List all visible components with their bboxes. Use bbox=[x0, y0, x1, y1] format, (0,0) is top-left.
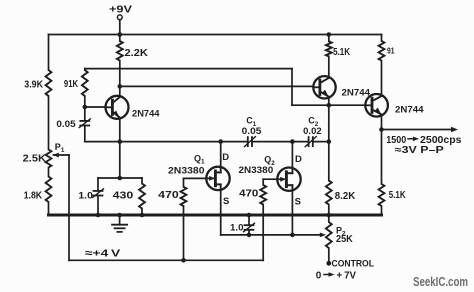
wire 430 upper bbox=[141, 178, 143, 184]
wire 91 to T3 collector bbox=[381, 61, 383, 96]
wire T1 emitter bbox=[119, 118, 121, 142]
label 2.2K bbox=[125, 48, 149, 59]
resistor 5.1K top bbox=[326, 41, 332, 56]
svg-text:0.05: 0.05 bbox=[56, 119, 76, 130]
label 1.8K bbox=[24, 191, 43, 202]
capacitor C1 0.05 bbox=[244, 137, 255, 147]
P1 wiper arrow bbox=[53, 153, 69, 261]
resistor 8.2K bbox=[326, 181, 332, 205]
wire C1 to Q2 drain bbox=[252, 141, 308, 143]
label 2N744 #2 bbox=[342, 87, 371, 98]
svg-text:+9V: +9V bbox=[109, 4, 132, 15]
label 2N744 #3 bbox=[395, 105, 424, 116]
svg-text:S: S bbox=[295, 197, 301, 208]
label 1500 to 2500cps bbox=[386, 135, 462, 146]
resistor 91K bbox=[82, 70, 88, 96]
wire 1.0 cap upper bbox=[97, 178, 99, 191]
node ground stub bbox=[117, 213, 122, 218]
label CONTROL bbox=[332, 259, 375, 270]
wire T1 emitter to bias network bbox=[119, 142, 121, 178]
label 2N744 #1 bbox=[132, 108, 160, 119]
wire cross-couple 91K to T2 emitter bbox=[85, 69, 292, 106]
label 1.0 #2 bbox=[230, 223, 244, 234]
resistor 470 #1 bbox=[181, 187, 187, 206]
node T1 collector bbox=[118, 84, 123, 89]
svg-text:91: 91 bbox=[387, 46, 395, 56]
wire 2.2K to T1 collector bbox=[119, 61, 121, 97]
transistor 2N744 #3 bbox=[365, 94, 388, 117]
node Q2 source junction bbox=[290, 233, 295, 238]
node T2 emitter junction bbox=[327, 103, 332, 108]
label Q2 bbox=[264, 155, 275, 167]
capacitor C2 0.02 bbox=[305, 137, 316, 147]
label 0 arrow +7V bbox=[316, 270, 357, 281]
label 91 bbox=[387, 46, 395, 56]
wire 470 #2 gate stub bbox=[262, 179, 264, 185]
node Q1 drain junction bbox=[218, 139, 223, 144]
wire emitter junction to T3 base bbox=[292, 104, 365, 106]
resistor 470 #2 bbox=[260, 185, 266, 205]
potentiometer P1 2.5K bbox=[46, 150, 52, 168]
wire 470 #1 gate stub bbox=[183, 178, 185, 186]
svg-text:470: 470 bbox=[158, 190, 179, 201]
label C2 value 0.02 bbox=[303, 126, 322, 137]
FET Q2 2N3380 bbox=[263, 167, 300, 191]
capacitor 1.0 source bypass bbox=[244, 223, 255, 232]
wire Q1 drain bbox=[220, 142, 222, 173]
resistor 5.1K bottom bbox=[379, 184, 385, 206]
svg-text:25K: 25K bbox=[336, 234, 353, 245]
wire T3 emitter to 5.1K bbox=[381, 130, 383, 185]
svg-text:8.2K: 8.2K bbox=[335, 191, 356, 202]
svg-text:D: D bbox=[222, 152, 229, 163]
node 470 #1 +4V junction bbox=[181, 258, 186, 263]
svg-text:470: 470 bbox=[239, 189, 259, 200]
svg-text:1.0: 1.0 bbox=[230, 223, 244, 234]
wire rail to P2 bbox=[328, 215, 330, 222]
wire 1.0 bypass upper bbox=[248, 215, 250, 225]
svg-text:2N3380: 2N3380 bbox=[239, 165, 274, 176]
label 3.9K bbox=[24, 80, 43, 91]
label 470 #2 bbox=[239, 189, 259, 200]
node output junction bbox=[379, 127, 384, 132]
wire bias network top rail bbox=[98, 177, 142, 179]
label C1 bbox=[246, 116, 256, 128]
label 8.2K bbox=[335, 191, 356, 202]
label Q1 bbox=[194, 154, 205, 166]
node Q2 drain junction bbox=[290, 139, 295, 144]
wire left rail bottom bbox=[48, 202, 50, 215]
transistor 2N744 #1 bbox=[106, 96, 129, 119]
svg-text:1.0: 1.0 bbox=[78, 191, 93, 202]
wire 1.0 cap lower bbox=[97, 196, 99, 216]
wire Q2 drain bbox=[291, 142, 293, 174]
resistor 3.9K bbox=[46, 70, 52, 96]
label Q2 type 2N3380 bbox=[239, 165, 274, 176]
label +9V bbox=[109, 4, 132, 15]
wire T1 base bbox=[85, 106, 106, 108]
node T1 base bbox=[83, 105, 88, 110]
node 1.0 cap ground bbox=[96, 213, 101, 218]
wire Q1 source bbox=[220, 184, 222, 235]
watermark SeekIC.com bbox=[413, 275, 468, 289]
wire T2 emitter down to C2 junction bbox=[328, 105, 330, 141]
svg-text:2N3380: 2N3380 bbox=[168, 166, 205, 177]
CONTROL terminal bbox=[326, 261, 331, 266]
label C1 value 0.05 bbox=[242, 126, 262, 137]
svg-text:2N744: 2N744 bbox=[395, 105, 424, 116]
svg-text:≈3V P–P: ≈3V P–P bbox=[395, 145, 444, 156]
label Q2 S bbox=[295, 197, 301, 208]
node T2 emitter column junction bbox=[327, 139, 332, 144]
svg-text:430: 430 bbox=[113, 191, 134, 202]
svg-text:3.9K: 3.9K bbox=[24, 80, 43, 91]
svg-text:91K: 91K bbox=[64, 79, 79, 90]
transistor 2N744 #2 bbox=[313, 76, 335, 98]
wire 470 #1 to +4V line bbox=[183, 206, 185, 260]
wire left rail upper bbox=[48, 35, 50, 71]
wire 8.2K to ground rail bbox=[328, 205, 330, 216]
label Q1 type 2N3380 bbox=[168, 166, 205, 177]
label 91K bbox=[64, 79, 79, 90]
resistor 430 bbox=[139, 184, 145, 209]
label P2 bbox=[336, 225, 346, 237]
wire 5.1K to T2 collector bbox=[328, 56, 330, 77]
node 8.2K ground bbox=[327, 213, 332, 218]
svg-text:+ 7V: + 7V bbox=[337, 270, 357, 281]
wire 1.0 bypass lower bbox=[248, 230, 250, 235]
wire P2 to control terminal bbox=[328, 248, 330, 263]
wire 430 lower bbox=[141, 209, 143, 216]
svg-text:0.05: 0.05 bbox=[242, 126, 262, 137]
wire 91K to base node bbox=[84, 96, 86, 107]
capacitor 0.05 feedback bbox=[79, 119, 90, 128]
svg-text:2N744: 2N744 bbox=[132, 108, 160, 119]
FET Q1 2N3380 bbox=[184, 166, 230, 190]
label 470 #1 bbox=[158, 190, 179, 201]
P2 wiper arrowhead bbox=[320, 233, 326, 238]
svg-text:SeekIC.com: SeekIC.com bbox=[413, 275, 468, 289]
wire ground rail bbox=[49, 214, 382, 217]
label Q1 D bbox=[222, 152, 229, 163]
node 430 ground bbox=[140, 213, 145, 218]
svg-text:2.5K: 2.5K bbox=[23, 154, 47, 165]
svg-text:2N744: 2N744 bbox=[342, 87, 371, 98]
svg-text:S: S bbox=[223, 196, 229, 207]
wire T3 emitter bbox=[381, 115, 383, 130]
wire top rail right corner bbox=[381, 35, 383, 41]
ground symbol bbox=[112, 215, 127, 232]
label +4V bbox=[85, 247, 120, 259]
wire left rail lower bbox=[48, 168, 50, 177]
label 3V P-P bbox=[395, 145, 444, 156]
svg-text:CONTROL: CONTROL bbox=[332, 259, 375, 270]
wire Q2 source bbox=[291, 185, 293, 235]
node bias network top bbox=[118, 176, 123, 181]
label 2.5K bbox=[23, 154, 47, 165]
svg-text:1.8K: 1.8K bbox=[24, 191, 43, 202]
node T1 emitter junction bbox=[118, 139, 123, 144]
wire 0.05 cap to coupling wire bbox=[84, 126, 86, 142]
svg-text:2.2K: 2.2K bbox=[125, 48, 149, 59]
wire 91K top corner bbox=[84, 69, 86, 70]
node 2.2K top bbox=[118, 32, 123, 37]
wire +9V rail to 2.2K bbox=[119, 35, 121, 42]
wire 5.1K bottom to rail bbox=[381, 206, 383, 215]
+9V supply terminal bbox=[117, 15, 122, 35]
label 0.05 bbox=[56, 119, 76, 130]
wire top rail bbox=[49, 34, 382, 36]
potentiometer P2 25K bbox=[326, 222, 332, 248]
label 5.1K top bbox=[333, 47, 351, 58]
wire rail to 5.1K bbox=[328, 35, 330, 42]
label C2 bbox=[308, 116, 319, 128]
resistor 91 bbox=[379, 41, 385, 61]
node 1.0 bypass bottom bbox=[247, 233, 252, 238]
wire FET sources bbox=[221, 234, 320, 236]
svg-text:5.1K: 5.1K bbox=[389, 190, 406, 201]
label 1.0 #1 bbox=[78, 191, 93, 202]
node 1.0 bypass top bbox=[247, 213, 252, 218]
label P1 bbox=[55, 142, 65, 154]
wire C2 to T2 emitter column bbox=[313, 141, 329, 143]
label 5.1K bottom bbox=[389, 190, 406, 201]
svg-text:5.1K: 5.1K bbox=[333, 47, 351, 58]
svg-text:D: D bbox=[295, 154, 302, 165]
label Q1 S bbox=[223, 196, 229, 207]
output arrow bbox=[382, 127, 459, 132]
wire T2 emitter bbox=[328, 97, 330, 105]
svg-text:≈+4 V: ≈+4 V bbox=[85, 247, 120, 259]
label 25K bbox=[336, 234, 353, 245]
wire +4V line bbox=[69, 259, 263, 261]
wire T2 base bbox=[120, 85, 313, 87]
wire C2 junction to 8.2K bbox=[328, 142, 330, 181]
resistor 2.2K bbox=[117, 41, 123, 61]
capacitor 1.0 emitter bypass bbox=[93, 189, 104, 198]
wire 470 #2 to +4V line bbox=[262, 205, 264, 261]
svg-text:0.02: 0.02 bbox=[303, 126, 322, 137]
wire left rail mid bbox=[48, 96, 50, 150]
wire coupling horizontal bbox=[85, 141, 247, 143]
label Q2 D bbox=[295, 154, 302, 165]
resistor 1.8K bbox=[46, 177, 52, 203]
wire base node to 0.05 cap bbox=[84, 107, 86, 121]
svg-text:0: 0 bbox=[316, 270, 322, 281]
node 5.1K top junction bbox=[327, 32, 332, 37]
label 430 bbox=[113, 191, 134, 202]
